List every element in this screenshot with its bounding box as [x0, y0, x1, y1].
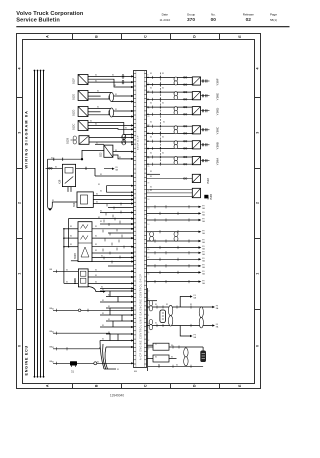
svg-text:21: 21: [147, 232, 149, 234]
wires B29: [53, 270, 134, 292]
svg-text:31: 31: [150, 122, 152, 124]
svg-text:31: 31: [100, 174, 102, 176]
drawing frame outer border: [17, 34, 261, 389]
svg-text:31: 31: [96, 202, 98, 204]
svg-text:31: 31: [66, 270, 68, 272]
svg-text:31: 31: [150, 73, 152, 75]
svg-text:ENGINE ECU: ENGINE ECU: [24, 345, 28, 375]
svg-text:31: 31: [150, 103, 152, 105]
injector Y38D: [147, 106, 220, 116]
svg-text:31: 31: [112, 75, 114, 77]
svg-text:0: 0: [18, 345, 22, 347]
svg-text:31: 31: [90, 121, 92, 123]
svg-text:31: 31: [102, 289, 104, 291]
sensor B22: [147, 174, 210, 183]
svg-text:8: 8: [147, 75, 148, 77]
svg-text:31: 31: [70, 244, 72, 246]
header rule: [16, 26, 289, 28]
svg-text:31: 31: [166, 304, 168, 306]
svg-text:No.: No.: [211, 13, 216, 17]
wire jogs middle: [103, 203, 124, 264]
svg-text:2: 2: [18, 202, 22, 204]
svg-text:31: 31: [150, 171, 152, 173]
svg-text:31: 31: [70, 235, 72, 237]
svg-text:1: 1: [256, 273, 260, 275]
svg-text:Date: Date: [162, 13, 169, 17]
svg-text:B13B: B13B: [67, 138, 70, 144]
header columns: [159, 13, 277, 24]
svg-text:11: 11: [147, 149, 149, 151]
twisted pairs lower-right: [149, 301, 203, 366]
junction dots B20B: [63, 228, 69, 247]
left row ticks: [57, 309, 89, 365]
svg-text:31: 31: [102, 300, 104, 302]
sensor B13B with screen: [67, 136, 90, 145]
svg-text:31: 31: [95, 270, 97, 272]
svg-text:K39: K39: [58, 179, 61, 184]
svg-text:A: A: [46, 384, 50, 387]
sensor B13F: [73, 75, 88, 85]
svg-text:31: 31: [100, 190, 102, 192]
sensor B13D: [73, 107, 88, 117]
svg-text:31: 31: [162, 103, 164, 105]
svg-text:0: 0: [256, 345, 260, 347]
ECU connector strip: [134, 71, 147, 368]
svg-text:31: 31: [95, 80, 97, 82]
svg-text:31: 31: [155, 357, 157, 359]
svg-text:31: 31: [150, 190, 152, 192]
svg-text:B13F: B13F: [73, 78, 76, 84]
stub off-page arrow mid: [104, 168, 112, 170]
off-page connector arrows: [147, 207, 199, 282]
svg-text:31: 31: [96, 143, 98, 145]
drawing frame inner border: [23, 40, 255, 384]
injector Y38F: [147, 76, 220, 86]
relay K39: [58, 164, 75, 186]
svg-text:31: 31: [98, 184, 100, 186]
svg-text:A-CP ENGINE CONTROL UNIT EA: A-CP ENGINE CONTROL UNIT EA ENGINE CONTR…: [139, 274, 142, 360]
svg-text:31: 31: [52, 347, 54, 349]
inline connector pair top: [122, 75, 124, 85]
svg-text:56: 56: [147, 274, 149, 276]
svg-text:3: 3: [147, 282, 148, 284]
svg-text:31: 31: [119, 157, 121, 159]
svg-text:31: 31: [97, 107, 99, 109]
svg-text:31: 31: [108, 295, 110, 297]
svg-text:B: B: [95, 35, 99, 38]
wires bottom-left to ECU: [53, 291, 134, 369]
svg-text:31: 31: [101, 256, 103, 258]
svg-text:31: 31: [51, 157, 53, 159]
svg-text:00: 00: [211, 17, 217, 23]
ground connector 31: [70, 361, 77, 373]
harness bus (4 cable lines): [35, 71, 44, 377]
svg-text:31: 31: [97, 91, 99, 93]
svg-text:31: 31: [155, 343, 157, 345]
svg-text:D: D: [193, 35, 197, 38]
sensor B20: [73, 192, 94, 208]
svg-text:31: 31: [66, 282, 68, 284]
svg-text:Y38E: Y38E: [216, 93, 220, 101]
svg-text:58(1): 58(1): [270, 18, 277, 22]
svg-text:31: 31: [102, 313, 104, 315]
sensor B48: [147, 188, 214, 199]
svg-text:31: 31: [162, 73, 164, 75]
svg-text:B13C: B13C: [73, 124, 76, 130]
twisted pair symbols mid-right: [150, 232, 154, 241]
svg-text:Y38A: Y38A: [216, 157, 220, 166]
svg-text:7: 7: [147, 216, 148, 218]
fuse F2: [109, 108, 113, 117]
svg-text:13949040: 13949040: [110, 394, 124, 398]
svg-text:42: 42: [147, 257, 149, 259]
frame band separators: [17, 34, 261, 389]
svg-text:36: 36: [147, 108, 149, 110]
svg-text:31: 31: [52, 200, 54, 202]
screen crossing ticks: [159, 76, 161, 166]
svg-text:31: 31: [114, 85, 116, 87]
wires B20B: [64, 219, 134, 284]
injector Y38C: [147, 125, 220, 135]
svg-text:31: 31: [115, 109, 117, 111]
svg-text:31: 31: [96, 194, 98, 196]
svg-text:14: 14: [147, 224, 149, 226]
svg-text:31: 31: [95, 282, 97, 284]
connector pair relay: [48, 167, 52, 169]
svg-text:31: 31: [97, 362, 99, 364]
fuse F1: [109, 92, 113, 101]
svg-text:31: 31: [95, 275, 97, 277]
svg-text:31: 31: [150, 152, 152, 154]
svg-text:31: 31: [52, 309, 54, 311]
svg-text:31: 31: [162, 152, 164, 154]
wires B23 to ECU: [95, 144, 134, 192]
svg-text:31: 31: [108, 332, 110, 334]
svg-text:31: 31: [150, 187, 152, 189]
svg-text:31: 31: [158, 365, 160, 367]
ECU pin numbers: [147, 75, 149, 359]
injector Y38A: [147, 156, 220, 166]
svg-text:43: 43: [147, 116, 149, 118]
svg-text:31: 31: [162, 88, 164, 90]
svg-text:31: 31: [117, 369, 119, 371]
svg-text:Service Bulletin: Service Bulletin: [16, 18, 60, 24]
svg-text:2: 2: [256, 202, 260, 204]
svg-text:31: 31: [176, 365, 178, 367]
svg-text:31: 31: [95, 235, 97, 237]
svg-text:Y38B: Y38B: [216, 142, 220, 150]
sensor B13C: [73, 121, 88, 131]
svg-text:31: 31: [98, 217, 100, 219]
svg-text:A: A: [46, 35, 50, 38]
svg-text:31: 31: [52, 331, 54, 333]
svg-text:B23: B23: [100, 152, 103, 157]
lower-right wiring cluster: [147, 288, 213, 371]
svg-text:B: B: [95, 384, 99, 387]
svg-text:B13E: B13E: [73, 94, 76, 100]
wires sensors to ECU: [88, 76, 134, 142]
svg-text:31: 31: [95, 75, 97, 77]
svg-text:31: 31: [95, 244, 97, 246]
svg-text:31: 31: [115, 94, 117, 96]
wires relay area: [46, 150, 104, 209]
svg-text:3: 3: [256, 132, 260, 134]
junction dots at ECU wall: [132, 218, 134, 289]
svg-text:31: 31: [70, 226, 72, 228]
frame zone letters: [18, 35, 260, 387]
svg-text:02: 02: [246, 17, 252, 23]
sensor B13E: [73, 91, 88, 101]
svg-text:31: 31: [95, 124, 97, 126]
injector Y38E: [147, 91, 220, 101]
svg-text:31: 31: [171, 345, 173, 347]
dark capsule component R: [200, 351, 206, 363]
svg-text:31: 31: [150, 88, 152, 90]
svg-text:1: 1: [18, 273, 22, 275]
svg-text:Release: Release: [243, 13, 254, 17]
wires B20: [49, 158, 133, 210]
ECU strip pins: [134, 74, 147, 365]
svg-text:31: 31: [155, 304, 157, 306]
svg-text:C: C: [144, 35, 148, 38]
sensor B29: [74, 269, 88, 287]
svg-text:Group: Group: [187, 13, 196, 17]
wire number labels: [51, 73, 192, 371]
screen (dashed) line injectors: [160, 73, 162, 165]
svg-text:Page: Page: [270, 13, 277, 17]
svg-text:31: 31: [108, 306, 110, 308]
svg-text:Y38C: Y38C: [216, 126, 220, 135]
capsule component: [160, 310, 166, 323]
svg-text:31: 31: [125, 128, 127, 130]
sensor B23: [100, 145, 113, 157]
svg-text:B22: B22: [206, 178, 210, 184]
svg-text:WIRING DIAGRAM 8A: WIRING DIAGRAM 8A: [24, 110, 28, 169]
svg-text:31: 31: [163, 122, 165, 124]
svg-text:31: 31: [150, 176, 152, 178]
svg-text:3: 3: [18, 132, 22, 134]
svg-text:Volvo Truck Corporation: Volvo Truck Corporation: [16, 11, 84, 17]
svg-text:31: 31: [52, 362, 54, 364]
svg-text:31: 31: [155, 323, 157, 325]
svg-text:B20: B20: [73, 202, 76, 207]
svg-text:Y38F: Y38F: [216, 78, 220, 86]
ECU left wall pin arrows lower: [131, 290, 134, 365]
svg-text:31: 31: [115, 150, 117, 152]
svg-text:370: 370: [187, 17, 195, 23]
svg-text:E14: E14: [207, 195, 210, 200]
svg-text:D: D: [193, 384, 197, 387]
svg-text:31: 31: [171, 357, 173, 359]
svg-text:31: 31: [100, 211, 102, 213]
svg-text:31: 31: [102, 325, 104, 327]
svg-text:31: 31: [108, 319, 110, 321]
svg-text:53: 53: [147, 199, 149, 201]
svg-text:Y38D: Y38D: [216, 107, 220, 116]
junction circle: [78, 309, 81, 312]
svg-text:31: 31: [190, 304, 192, 306]
svg-text:25: 25: [147, 166, 149, 168]
twisted pair symbol mid: [122, 134, 126, 145]
svg-text:31: 31: [100, 221, 102, 223]
svg-text:11.2010: 11.2010: [159, 18, 170, 22]
svg-text:39: 39: [147, 182, 149, 184]
svg-text:31: 31: [95, 226, 97, 228]
ticks lower-right: [157, 305, 191, 368]
svg-text:B48: B48: [209, 194, 213, 200]
svg-text:B20B: B20B: [74, 253, 77, 259]
svg-text:31: 31: [95, 250, 97, 252]
svg-text:35: 35: [147, 249, 149, 251]
small boxes lower-right: [153, 343, 169, 350]
svg-text:31: 31: [55, 167, 57, 169]
svg-text:E4/2P A-CP: E4/2P A-CP: [137, 135, 140, 150]
svg-text:C: C: [144, 384, 148, 387]
offpage arrow b29: [103, 290, 106, 292]
actuator B20B: [74, 222, 92, 262]
wires mid to ECU: [92, 174, 160, 288]
svg-text:60: 60: [147, 207, 149, 209]
svg-text:31: 31: [150, 137, 152, 139]
injector Y38B: [147, 140, 220, 150]
svg-text:31: 31: [162, 137, 164, 139]
ECU left wall pin arrows: [131, 75, 134, 289]
svg-text:4: 4: [18, 68, 22, 70]
arrows lower-right: [190, 295, 215, 337]
svg-text:31: 31: [102, 339, 104, 341]
svg-text:B13D: B13D: [73, 110, 76, 116]
svg-text:4: 4: [256, 68, 260, 70]
svg-text:18: 18: [147, 158, 149, 160]
header title: [16, 11, 84, 23]
